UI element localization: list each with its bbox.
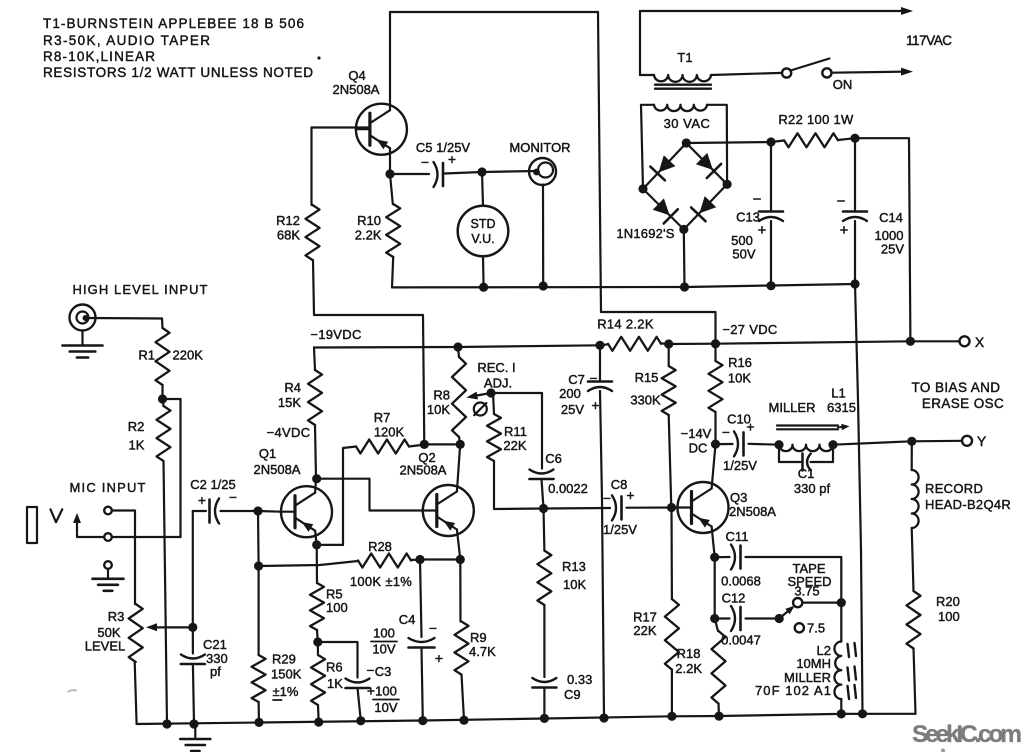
node C12 junction — [710, 614, 719, 623]
wire — [424, 443, 460, 445]
wire — [193, 664, 194, 724]
svg-text:C7: C7 — [568, 372, 585, 387]
wire — [313, 260, 424, 444]
wire — [715, 619, 718, 632]
svg-text:1/25V: 1/25V — [603, 522, 637, 537]
label 1N1692S — [616, 226, 674, 241]
wire — [77, 536, 104, 538]
svg-text:120K: 120K — [374, 425, 405, 440]
svg-text:22K: 22K — [633, 623, 656, 638]
wire — [457, 530, 460, 560]
label -14V DC — [681, 426, 712, 456]
switch ON — [782, 59, 852, 93]
node C11 junction — [710, 553, 719, 562]
node R3 wiper junction — [188, 623, 197, 632]
wire — [854, 221, 856, 284]
node R1/R2 junction — [158, 394, 167, 403]
node switch lever junction — [775, 614, 784, 623]
svg-text:25V: 25V — [881, 242, 904, 257]
resistor R9 — [455, 622, 497, 675]
svg-text:50V: 50V — [732, 247, 755, 262]
wire — [542, 479, 544, 509]
wire — [912, 528, 914, 591]
svg-text:R2: R2 — [128, 419, 145, 434]
node C6/R13 junction — [539, 504, 548, 513]
svg-text:R9: R9 — [470, 630, 487, 645]
wire — [749, 443, 780, 446]
jack MIC INPUT — [27, 480, 146, 569]
svg-text:−: − — [837, 193, 846, 210]
svg-text:V.U.: V.U. — [471, 232, 494, 246]
wire — [717, 704, 720, 717]
capacitor C1 — [779, 445, 833, 496]
wire — [911, 441, 913, 470]
wire -27VDC rail — [669, 341, 960, 344]
svg-text:−: − — [421, 154, 429, 170]
capacitor C14 — [837, 193, 905, 257]
svg-text:C3: C3 — [375, 664, 392, 679]
resistor R10 — [355, 204, 400, 257]
svg-text:C11: C11 — [726, 529, 749, 544]
node Q2 emitter junction — [456, 555, 465, 564]
svg-text:T1: T1 — [677, 50, 692, 65]
svg-text:+: + — [840, 222, 849, 239]
svg-text:2.2K: 2.2K — [675, 661, 702, 676]
svg-text:330 pf: 330 pf — [794, 481, 831, 496]
wire — [392, 284, 855, 287]
svg-text:25V: 25V — [561, 402, 584, 417]
resistor R5 — [310, 583, 348, 630]
svg-text:ADJ.: ADJ. — [484, 376, 512, 391]
label -19VDC — [310, 327, 361, 342]
capacitor C10 — [722, 412, 757, 474]
svg-text:HEAD-B2Q4R: HEAD-B2Q4R — [925, 497, 1011, 512]
label 117VAC — [906, 33, 952, 48]
wire — [661, 342, 669, 345]
node monitor/rail junction — [539, 281, 548, 290]
svg-text:2.2K: 2.2K — [355, 228, 382, 243]
svg-text:7.5: 7.5 — [807, 621, 825, 636]
wire — [310, 128, 312, 206]
svg-text:100: 100 — [373, 626, 395, 641]
wire — [389, 12, 391, 110]
wire — [459, 560, 461, 622]
svg-text:0.33: 0.33 — [567, 672, 592, 687]
capacitor C5 — [416, 140, 471, 187]
wire — [258, 566, 260, 655]
svg-text:LEVEL: LEVEL — [85, 639, 125, 654]
resistor R15 — [630, 366, 675, 415]
resistor R4 — [278, 370, 322, 425]
wire — [802, 601, 841, 603]
node R7/R12 junction — [420, 440, 429, 449]
svg-text:TO BIAS AND: TO BIAS AND — [912, 380, 1001, 395]
svg-text:RESISTORS 1/2 WATT UNLESS NOTE: RESISTORS 1/2 WATT UNLESS NOTED — [43, 65, 313, 80]
svg-text:2N508A: 2N508A — [254, 462, 301, 477]
svg-text:T1-BURNSTEIN APPLEBEE 18 B 506: T1-BURNSTEIN APPLEBEE 18 B 506 — [43, 16, 304, 31]
wire — [543, 688, 545, 719]
node R6/rail junction — [314, 718, 323, 727]
svg-text:−: − — [229, 489, 237, 505]
node common/rail junction — [858, 709, 867, 718]
svg-text:+: + — [626, 487, 634, 503]
wire — [707, 105, 727, 185]
wire — [855, 284, 863, 714]
transistor Q2 — [400, 450, 474, 536]
node C4 top junction — [415, 555, 424, 564]
svg-text:100: 100 — [375, 684, 397, 699]
resistor R18 — [675, 631, 725, 704]
node bridge right — [723, 180, 732, 189]
diode D1 1N1692 — [650, 155, 675, 180]
resistor R22 — [778, 112, 854, 147]
wire — [390, 173, 429, 175]
svg-text:15K: 15K — [278, 395, 301, 410]
wire — [770, 221, 772, 286]
label -27 VDC — [722, 322, 777, 337]
svg-text:+: + — [591, 397, 599, 413]
node bridge left — [638, 184, 647, 193]
wire — [686, 143, 727, 184]
jack HIGH LEVEL INPUT — [70, 282, 208, 331]
wire — [840, 603, 842, 642]
node R28 left junction — [254, 561, 263, 570]
wire — [316, 545, 318, 583]
node C21/rail junction — [189, 719, 198, 728]
wire — [686, 142, 771, 143]
svg-text:±1%: ±1% — [273, 684, 299, 699]
svg-text:1K: 1K — [327, 676, 343, 691]
svg-text:−14V: −14V — [681, 426, 712, 441]
wire — [221, 510, 259, 512]
wire — [542, 185, 544, 287]
svg-text:−4VDC: −4VDC — [267, 425, 311, 440]
wire — [445, 172, 483, 174]
wire — [714, 557, 716, 618]
svg-text:+: + — [448, 151, 456, 167]
wire — [358, 688, 361, 721]
wire — [161, 385, 163, 399]
svg-text:MIC INPUT: MIC INPUT — [70, 480, 146, 495]
capacitor C6 — [530, 451, 588, 496]
wire — [317, 705, 320, 722]
svg-text:C21: C21 — [203, 637, 227, 652]
node L2 top junction — [837, 598, 846, 607]
note text block — [43, 16, 321, 80]
svg-text:R3: R3 — [108, 609, 125, 624]
svg-text:+: + — [198, 492, 206, 508]
svg-text:1/25V: 1/25V — [723, 458, 757, 473]
transformer T1 core — [655, 85, 711, 89]
wire — [770, 142, 772, 211]
svg-text:X: X — [975, 334, 985, 350]
svg-text:R4: R4 — [284, 380, 301, 395]
svg-text:200: 200 — [559, 386, 581, 401]
node R16 top junction — [711, 339, 720, 348]
svg-text:−: − — [589, 370, 597, 386]
transformer T1 secondary — [654, 105, 710, 131]
node R5/R6 junction — [313, 637, 322, 646]
svg-text:C6: C6 — [545, 451, 562, 466]
node R22 right junction — [850, 134, 859, 143]
node R9/rail junction — [459, 716, 468, 725]
node meter/rail junction — [479, 283, 488, 292]
svg-text:2N508A: 2N508A — [333, 82, 380, 97]
capacitor C8 — [603, 477, 637, 537]
wire — [259, 561, 358, 566]
svg-text:R8: R8 — [433, 388, 450, 403]
wire — [542, 509, 545, 551]
wire ground rail — [137, 714, 916, 724]
resistor R12 — [276, 205, 319, 260]
svg-text:R16: R16 — [728, 355, 752, 370]
wire — [312, 126, 371, 128]
inductor L2 10MH MILLER 70F102A1 — [755, 642, 856, 700]
svg-text:10K: 10K — [427, 402, 450, 417]
wire — [600, 344, 608, 345]
svg-text:Q1: Q1 — [259, 446, 276, 461]
svg-text:0.0068: 0.0068 — [721, 574, 761, 589]
svg-text:10K: 10K — [728, 371, 751, 386]
resistor R6 — [311, 642, 343, 705]
resistor R28 — [350, 539, 412, 589]
svg-text:SeekIC.com: SeekIC.com — [912, 721, 1022, 748]
svg-text:4.7K: 4.7K — [469, 644, 496, 659]
svg-text:R13: R13 — [562, 559, 586, 574]
wire — [671, 670, 673, 717]
resistor R16 — [709, 355, 752, 412]
svg-text:DC: DC — [689, 441, 708, 456]
capacitor C9 — [532, 672, 592, 702]
svg-text:6315: 6315 — [827, 400, 856, 415]
wire — [193, 510, 206, 512]
wire — [627, 506, 678, 508]
svg-text:Q4: Q4 — [348, 68, 365, 83]
svg-text:117VAC: 117VAC — [906, 33, 952, 48]
svg-text:0.0047: 0.0047 — [721, 633, 761, 648]
svg-text:+: + — [367, 683, 375, 699]
wire — [598, 12, 716, 344]
wire — [192, 511, 194, 627]
resistor R1 — [138, 328, 203, 385]
resistor R7 — [356, 410, 409, 454]
wire — [854, 138, 856, 210]
wire — [914, 649, 916, 714]
svg-text:70F 102 A1: 70F 102 A1 — [755, 683, 831, 698]
wire — [390, 11, 598, 13]
meter STD V.U. — [458, 206, 509, 257]
svg-text:−: − — [722, 424, 730, 440]
node C4/rail junction — [418, 716, 427, 725]
terminal X — [960, 334, 985, 350]
svg-text:R1: R1 — [138, 348, 155, 363]
node R8 top junction — [453, 342, 462, 351]
svg-text:−: − — [753, 191, 762, 208]
capacitor C13 — [731, 191, 783, 262]
wire — [712, 444, 716, 489]
node Q3 base junction — [667, 503, 676, 512]
wire Y rail — [833, 441, 962, 445]
node Q1 base junction — [253, 506, 262, 515]
wire — [314, 348, 315, 371]
capacitor C12 — [715, 591, 761, 648]
node L1 right junction — [828, 440, 837, 449]
wire — [457, 444, 460, 491]
svg-text:10MH: 10MH — [796, 656, 831, 671]
wire — [855, 138, 910, 341]
wire — [482, 256, 485, 287]
node L1 left junction — [774, 440, 783, 449]
node C13/rail junction — [766, 281, 775, 290]
svg-text:R7: R7 — [374, 410, 391, 425]
wire — [422, 648, 423, 721]
label TO BIAS AND ERASE OSC — [912, 380, 1005, 411]
svg-text:−: − — [603, 490, 611, 506]
svg-text:1N1692'S: 1N1692'S — [616, 226, 674, 241]
wire — [683, 229, 686, 287]
resistor R2 — [128, 399, 171, 461]
svg-text:C12: C12 — [722, 591, 746, 606]
capacitor C21 — [181, 637, 228, 679]
ground — [93, 569, 124, 591]
wire — [392, 257, 393, 287]
wire — [317, 479, 424, 511]
node bridge bottom — [679, 225, 688, 234]
diode D4 1N1692 — [691, 196, 716, 221]
wire — [714, 344, 716, 361]
svg-text:−27 VDC: −27 VDC — [722, 322, 777, 337]
svg-text:R10: R10 — [357, 213, 381, 228]
svg-text:STD: STD — [471, 217, 496, 231]
svg-text:R6: R6 — [326, 660, 343, 675]
node Q1 emitter junction — [312, 540, 321, 549]
transistor Q1 — [254, 446, 332, 537]
wire — [684, 184, 727, 229]
transistor Q4 — [333, 68, 407, 155]
resistor R29 — [252, 652, 302, 703]
wire — [315, 531, 317, 545]
svg-text:Q3: Q3 — [730, 490, 747, 505]
wire — [639, 11, 641, 75]
svg-text:+: + — [746, 419, 754, 435]
wire — [258, 510, 281, 513]
svg-text:C5 1/25V: C5 1/25V — [416, 140, 471, 155]
wire — [318, 642, 358, 678]
svg-text:MILLER: MILLER — [769, 400, 816, 415]
wire — [462, 675, 465, 721]
wire — [389, 148, 391, 174]
node R13/rail junction — [540, 714, 549, 723]
wire — [317, 544, 343, 546]
node bridge/rail junction — [680, 282, 689, 291]
wire — [543, 605, 545, 677]
wire — [459, 437, 460, 444]
wire — [746, 617, 780, 619]
diode D2 1N1692 — [696, 153, 721, 178]
node R14/R15 junction — [664, 339, 673, 348]
wire — [164, 461, 168, 724]
capacitor C2 — [190, 477, 237, 524]
node R22 left junction — [766, 137, 775, 146]
svg-text:Y: Y — [977, 433, 987, 449]
node R18/rail junction — [714, 712, 723, 721]
wire — [411, 558, 420, 561]
wire — [409, 445, 424, 447]
svg-text:2N508A: 2N508A — [729, 504, 776, 519]
wire — [420, 560, 422, 638]
wire — [544, 507, 611, 510]
svg-text:R18: R18 — [677, 646, 701, 661]
wire — [838, 138, 855, 140]
wire 117VAC top — [640, 7, 913, 15]
resistor R3 LEVEL — [85, 604, 193, 662]
wire — [670, 508, 673, 600]
potentiometer R8 REC. I ADJ. — [427, 357, 516, 437]
svg-text:C4: C4 — [399, 612, 416, 627]
svg-text:220K: 220K — [173, 348, 204, 363]
wire — [714, 412, 716, 444]
resistor R13 — [537, 551, 586, 605]
svg-text:R29: R29 — [272, 652, 296, 667]
svg-text:C14: C14 — [879, 210, 903, 225]
wire — [69, 690, 76, 691]
svg-text:100K ±1%: 100K ±1% — [350, 574, 412, 589]
node Q1 collector junction — [312, 474, 321, 483]
svg-text:L1: L1 — [831, 386, 845, 401]
resistor R11 — [487, 393, 527, 461]
wire — [599, 345, 601, 380]
wire — [640, 74, 654, 76]
node Q4 emitter junction — [385, 169, 394, 178]
transistor Q3 — [678, 482, 777, 533]
ground main — [180, 724, 210, 751]
diode D3 1N1692 — [653, 198, 678, 223]
wire — [163, 399, 181, 537]
inductor L1 — [769, 386, 856, 452]
svg-text:C1: C1 — [798, 466, 815, 481]
node L2/rail junction — [837, 709, 846, 718]
wire — [669, 415, 672, 508]
svg-text:150K: 150K — [271, 667, 302, 682]
wire — [482, 172, 483, 206]
svg-text:2N508A: 2N508A — [400, 463, 447, 478]
svg-text:C9: C9 — [564, 687, 581, 702]
wire — [643, 143, 686, 189]
node R29/rail junction — [254, 718, 263, 727]
wire — [315, 425, 316, 493]
svg-text:3.75: 3.75 — [794, 584, 819, 599]
svg-text:R15: R15 — [635, 370, 659, 385]
label -4VDC — [267, 425, 311, 440]
node C7/rail junction — [599, 713, 608, 722]
terminal Y — [962, 433, 987, 449]
svg-text:R8-10K,LINEAR: R8-10K,LINEAR — [43, 49, 155, 64]
node Q2 collector junction — [456, 440, 465, 449]
resistor R20 — [907, 591, 960, 649]
wire — [668, 344, 670, 366]
svg-text:MONITOR: MONITOR — [509, 140, 570, 155]
wire — [192, 627, 194, 653]
capacitor C11 — [715, 529, 761, 589]
svg-text:RECORD: RECORD — [925, 481, 983, 496]
node R8 wiper junction — [486, 388, 495, 397]
capacitor C7 — [559, 370, 612, 417]
svg-text:ERASE OSC: ERASE OSC — [922, 396, 1004, 411]
switch TAPE SPEED — [779, 561, 831, 636]
wire — [832, 68, 914, 76]
wire — [258, 702, 261, 722]
wire — [643, 189, 684, 230]
